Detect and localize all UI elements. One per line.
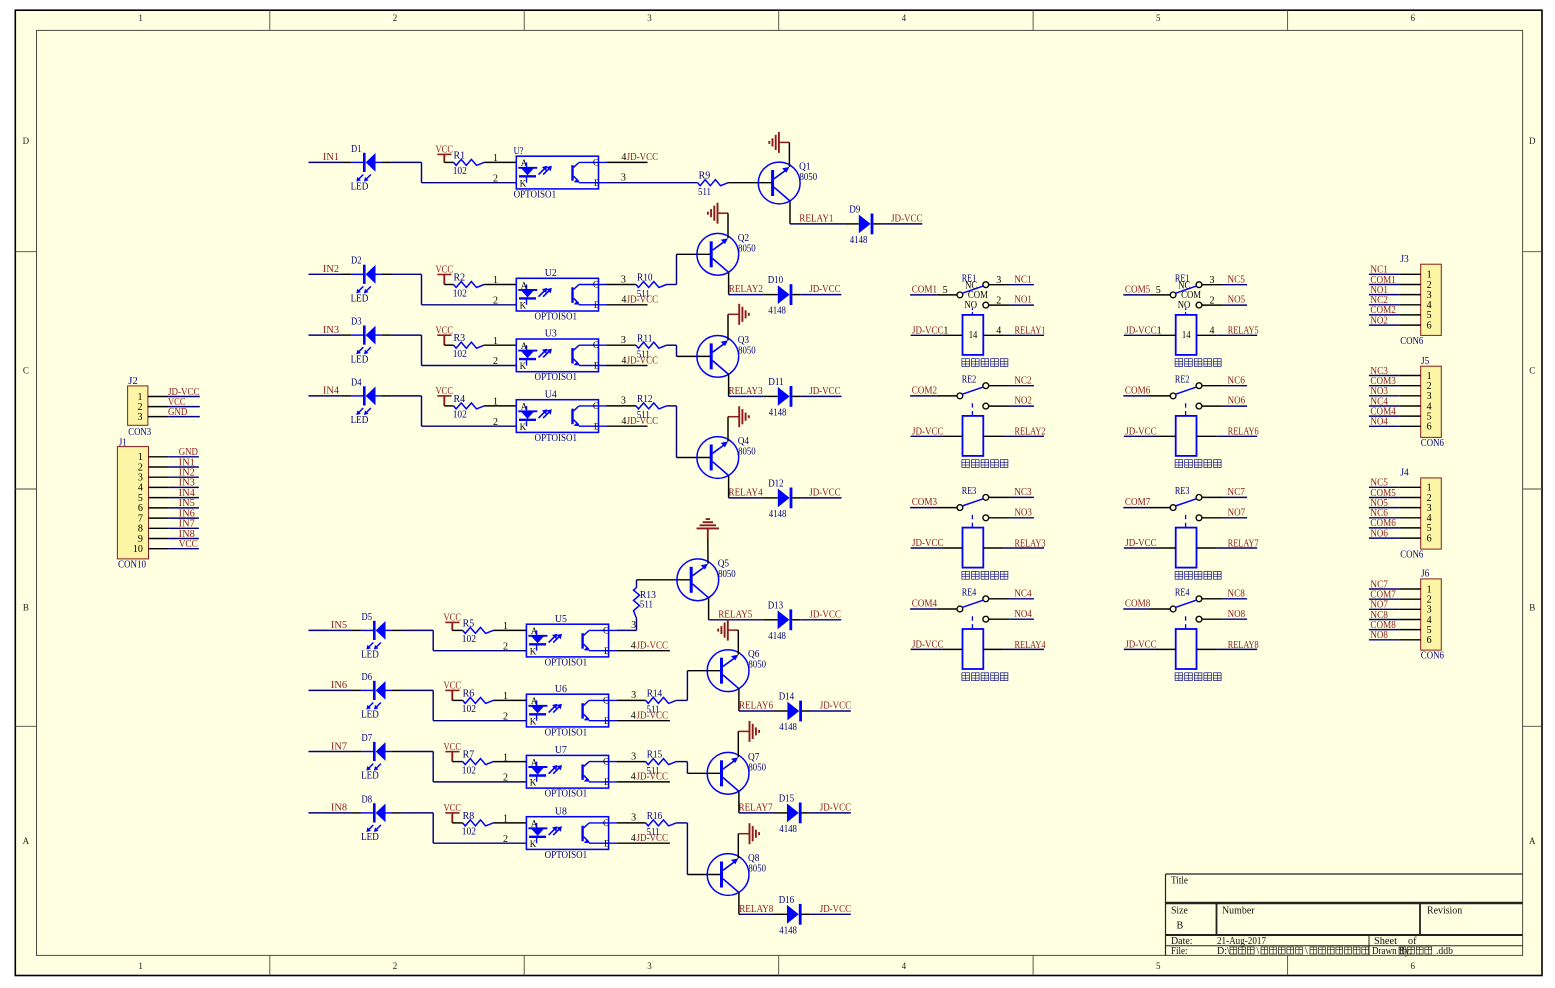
svg-text:RELAY7: RELAY7 [739, 803, 773, 814]
svg-text:4: 4 [631, 772, 636, 783]
wire Q1 collector to RELAY1 net [789, 201, 791, 224]
svg-text:U2: U2 [545, 268, 557, 279]
switch arm of RE3 [1175, 499, 1196, 506]
U5 internal LED [536, 630, 538, 635]
svg-text:C: C [603, 625, 609, 635]
value label of RE4 (Chinese) [1175, 673, 1221, 681]
svg-text:102: 102 [462, 634, 476, 645]
svg-text:JD-VCC: JD-VCC [912, 538, 944, 549]
diode D9 4148 [859, 215, 871, 234]
svg-text:1: 1 [503, 752, 508, 763]
svg-text:Q5: Q5 [718, 558, 729, 569]
ground above Q6 [728, 629, 739, 631]
wire NO6 [1202, 405, 1222, 407]
svg-text:102: 102 [453, 288, 467, 299]
U2 phototransistor [571, 287, 573, 303]
svg-text:RELAY6: RELAY6 [1228, 427, 1259, 438]
svg-text:B: B [1529, 603, 1535, 613]
svg-text:RELAY4: RELAY4 [729, 488, 763, 499]
switch arm of RE4 [1175, 600, 1196, 607]
opto-isolator U8 body [526, 817, 608, 850]
svg-text:RELAY2: RELAY2 [1015, 427, 1046, 438]
wire opto U2 pin 3 to R10 [607, 284, 637, 286]
svg-text:511: 511 [637, 410, 650, 421]
wire IN1 input [309, 161, 342, 163]
wire J4 pin 4 [1369, 517, 1399, 519]
contact NO of RE1 [1196, 302, 1202, 308]
ground above Q4 [728, 416, 739, 418]
opto-isolator U7 body [526, 755, 608, 788]
contact COM of RE1 [1170, 292, 1176, 298]
U4 phototransistor [571, 409, 573, 425]
svg-text:JD-VCC: JD-VCC [1125, 538, 1157, 549]
svg-text:1: 1 [503, 691, 508, 702]
svg-text:3: 3 [138, 412, 143, 423]
wire NC7 [1202, 496, 1222, 498]
svg-text:D:\: D:\ [1217, 946, 1230, 957]
svg-text:K: K [530, 839, 537, 849]
svg-text:6: 6 [1411, 961, 1416, 971]
svg-text:1: 1 [503, 621, 508, 632]
svg-text:NC1: NC1 [1014, 274, 1031, 285]
svg-text:Q4: Q4 [738, 436, 749, 447]
switch arm of RE1 [962, 286, 983, 293]
svg-text:R15: R15 [647, 750, 663, 761]
svg-text:.ddb: .ddb [1436, 946, 1453, 957]
diode D13 4148 [778, 610, 790, 629]
svg-text:3: 3 [621, 274, 626, 285]
svg-text:6: 6 [1427, 533, 1432, 544]
svg-text:10: 10 [133, 544, 143, 555]
wire NO3 [989, 517, 1009, 519]
pin 5 of J5 [1399, 415, 1421, 417]
wire Q3 emitter to ground [727, 314, 729, 340]
svg-text:8050: 8050 [738, 243, 756, 254]
svg-text:NO: NO [965, 300, 978, 311]
pin 4 of J3 [1399, 304, 1421, 306]
svg-text:IN1: IN1 [323, 152, 339, 163]
wire R4 to opto pin 1 [484, 405, 516, 407]
svg-text:D2: D2 [351, 256, 362, 267]
dotted link NO to coil of RE4 [971, 616, 973, 629]
switch arm of RE4 [962, 600, 983, 607]
svg-text:102: 102 [462, 704, 476, 715]
wire Q1 emitter to ground [788, 142, 790, 167]
opto-isolator U2 body [516, 278, 598, 311]
ground above Q3 [728, 313, 739, 315]
value label of RE3 (Chinese) [962, 571, 1008, 579]
wire J5 pin 1 [1369, 375, 1399, 377]
wire coil of RE2 to RELAY6 [1197, 435, 1217, 437]
relay coil RE2 [1176, 416, 1197, 456]
wire JD-VCC to coil of RE1 [911, 334, 943, 336]
pin 4 stub of U7 to JD-VCC [617, 781, 670, 783]
contact NC of RE2 [1196, 383, 1202, 389]
wire JD-VCC to coil of RE4 [911, 648, 943, 650]
pin 5 of J6 [1399, 629, 1421, 631]
svg-text:U7: U7 [555, 745, 567, 756]
svg-text:1: 1 [943, 325, 948, 336]
wire NC1 [989, 284, 1009, 286]
contact COM of RE2 [957, 393, 963, 399]
wire J1 pin 6 [168, 507, 199, 509]
svg-text:GND: GND [168, 407, 187, 418]
diode D1 LED [363, 153, 366, 172]
svg-text:2: 2 [503, 641, 508, 652]
svg-text:2: 2 [503, 711, 508, 722]
wire R10 to Q2 base [667, 284, 677, 286]
svg-text:4148: 4148 [850, 235, 868, 246]
wire coil of RE3 to RELAY7 [1197, 547, 1217, 549]
svg-text:A: A [531, 626, 538, 636]
wire from D1 to opto pin 2 [392, 161, 422, 163]
wire IN8 input [309, 812, 352, 814]
power VCC channel 2 [437, 274, 451, 276]
svg-text:D7: D7 [362, 733, 373, 744]
wire J6 pin 3 [1369, 608, 1399, 610]
transistor Q8 8050 [707, 854, 749, 896]
wire opto U7 pin 3 to R15 [617, 761, 646, 763]
svg-text:\: \ [1305, 946, 1308, 957]
pin 4 of J4 [1399, 517, 1421, 519]
U3 light arrows [539, 350, 546, 357]
svg-text:K: K [530, 716, 537, 726]
svg-text:C: C [593, 157, 599, 167]
svg-text:U6: U6 [555, 684, 567, 695]
svg-text:C: C [593, 279, 599, 289]
U4 light arrows [539, 411, 546, 418]
dotted link NO to coil of RE2 [971, 403, 973, 416]
svg-text:R8: R8 [463, 811, 475, 822]
svg-text:2: 2 [493, 296, 498, 307]
svg-text:A: A [521, 158, 528, 168]
wire Q2 collector to RELAY2 net [728, 272, 730, 294]
power VCC channel 6 [445, 689, 459, 691]
svg-text:4: 4 [631, 711, 636, 722]
wire coil of RE3 to RELAY3 [983, 547, 1003, 549]
svg-text:COM3: COM3 [912, 497, 937, 508]
svg-text:RE2: RE2 [962, 374, 977, 385]
svg-text:LED: LED [351, 182, 369, 193]
svg-text:NO8: NO8 [1370, 630, 1388, 641]
svg-text:6: 6 [1427, 320, 1432, 331]
diode D11 4148 [778, 387, 790, 406]
svg-text:3: 3 [621, 335, 626, 346]
wire J4 pin 2 [1369, 497, 1399, 499]
wire coil of RE1 to RELAY1 [983, 334, 1003, 336]
svg-text:102: 102 [462, 765, 476, 776]
svg-text:CON6: CON6 [1421, 651, 1444, 662]
resistor R5 102 [452, 629, 462, 631]
value label of RE1 (Chinese) [962, 359, 1008, 367]
svg-text:Q6: Q6 [748, 649, 759, 660]
wire from D8 to opto pin 2 [402, 812, 433, 814]
svg-text:J5: J5 [1421, 356, 1429, 367]
svg-text:OPTOISO1: OPTOISO1 [545, 727, 588, 738]
svg-text:14: 14 [1182, 330, 1191, 341]
svg-text:6: 6 [1427, 422, 1432, 433]
wire J1 pin 2 [168, 466, 199, 468]
pin 1 of J3 [1399, 273, 1421, 275]
svg-text:OPTOISO1: OPTOISO1 [545, 657, 588, 668]
svg-text:D16: D16 [779, 895, 795, 906]
svg-text:D11: D11 [768, 377, 784, 388]
svg-text:R6: R6 [463, 688, 475, 699]
contact NC of RE1 [1196, 282, 1202, 288]
pin 2 of J6 [1399, 598, 1421, 600]
wire NC4 [989, 598, 1009, 600]
pin 6 of J3 [1399, 324, 1421, 326]
svg-text:COM7: COM7 [1125, 497, 1150, 508]
svg-text:VCC: VCC [444, 613, 462, 624]
wire opto U8 pin 3 to R16 [617, 822, 646, 824]
wire JD-VCC to coil of RE3 [911, 547, 943, 549]
transistor Q6 8050 [707, 650, 749, 692]
svg-text:K: K [520, 178, 527, 188]
svg-text:Q7: Q7 [748, 752, 759, 763]
wire NC6 [1202, 385, 1222, 387]
ground (earth) above Q5 [706, 518, 710, 520]
wire J1 pin 9 [168, 538, 199, 540]
svg-text:JD-VCC: JD-VCC [627, 152, 659, 163]
wire J4 pin 6 [1369, 537, 1399, 539]
svg-text:JD-VCC: JD-VCC [912, 325, 944, 336]
svg-text:CON10: CON10 [118, 560, 146, 571]
svg-text:J2: J2 [128, 376, 138, 387]
svg-text:JD-VCC: JD-VCC [912, 426, 944, 437]
power VCC channel 7 [445, 751, 459, 753]
svg-text:VCC: VCC [436, 325, 454, 336]
svg-text:A: A [531, 819, 538, 829]
svg-text:R5: R5 [463, 618, 475, 629]
pin 2 of J5 [1399, 385, 1421, 387]
wire Q7 emitter to ground [737, 731, 739, 757]
svg-text:NO6: NO6 [1370, 528, 1388, 539]
svg-text:NC7: NC7 [1227, 487, 1245, 498]
svg-text:8050: 8050 [738, 447, 756, 458]
switch arm of RE2 [962, 387, 983, 394]
U7 light arrows [549, 767, 556, 774]
wire from D7 to opto pin 2 [402, 751, 433, 753]
wire R16 to Q8 base [676, 822, 687, 824]
svg-text:4148: 4148 [769, 407, 787, 418]
wire opto U4 pin 3 to R12 [607, 405, 637, 407]
U2 light arrows [539, 290, 546, 297]
svg-text:Q1: Q1 [799, 162, 810, 173]
svg-text:1: 1 [493, 153, 498, 164]
pin 5 of J1 [149, 497, 169, 499]
svg-text:LED: LED [361, 832, 379, 843]
wire JD-VCC to coil of RE3 [1124, 547, 1156, 549]
svg-text:RELAY8: RELAY8 [1228, 640, 1259, 651]
wire COM5 [1123, 294, 1149, 296]
U8 light arrows [549, 828, 556, 835]
svg-text:U8: U8 [555, 806, 567, 817]
svg-text:K: K [530, 778, 537, 788]
wire J4 pin 1 [1369, 486, 1399, 488]
wire R12 to Q4 base [667, 405, 677, 407]
svg-text:D: D [1529, 136, 1536, 146]
svg-text:E: E [594, 421, 600, 431]
wire J5 pin 2 [1369, 385, 1399, 387]
svg-text:U5: U5 [555, 614, 567, 625]
svg-text:JD-VCC: JD-VCC [1125, 639, 1157, 650]
opto-isolator U5 body [526, 624, 608, 657]
svg-text:JD-VCC: JD-VCC [820, 803, 852, 814]
svg-text:E: E [604, 716, 610, 726]
wire NO5 [1202, 304, 1222, 306]
svg-text:A: A [531, 757, 538, 767]
wire NO1 [989, 304, 1009, 306]
resistor R14 511 [646, 697, 677, 703]
svg-text:1: 1 [493, 397, 498, 408]
contact NC of RE1 [983, 282, 989, 288]
contact NO of RE2 [1196, 403, 1202, 409]
wire JD-VCC to coil of RE4 [1124, 648, 1156, 650]
pin 8 of J1 [149, 527, 169, 529]
svg-text:2: 2 [493, 356, 498, 367]
svg-text:RE4: RE4 [1175, 587, 1190, 598]
resistor R10 511 [636, 282, 667, 288]
contact NO of RE4 [1196, 616, 1202, 622]
svg-text:5: 5 [1156, 13, 1161, 23]
resistor R9 511 [698, 180, 729, 186]
wire Q3 collector to RELAY3 net [728, 374, 730, 396]
wire coil of RE1 to RELAY5 [1197, 334, 1217, 336]
svg-text:LED: LED [351, 294, 369, 305]
wire COM6 [1123, 395, 1149, 397]
wire J3 pin 2 [1369, 284, 1399, 286]
connector J2 body [128, 386, 148, 425]
svg-text:4148: 4148 [768, 306, 786, 317]
svg-text:511: 511 [640, 600, 653, 611]
contact COM of RE2 [1170, 393, 1176, 399]
U3 internal LED [526, 345, 528, 350]
svg-text:JD-VCC: JD-VCC [809, 386, 841, 397]
svg-text:R1: R1 [454, 150, 466, 161]
wire R15 to Q7 base [676, 761, 687, 763]
wire Q7 collector to RELAY7 net [738, 791, 740, 813]
svg-text:C: C [603, 695, 609, 705]
wire D10 to JD-VCC [792, 294, 800, 296]
contact NO of RE4 [983, 616, 989, 622]
contact NC of RE3 [1196, 495, 1202, 501]
wire opto U6 pin 3 to R14 [617, 699, 646, 701]
pin 3 of J3 [1399, 294, 1421, 296]
pin 4 stub of U2 to JD-VCC [607, 304, 648, 306]
svg-text:C: C [1529, 365, 1535, 375]
svg-text:511: 511 [647, 766, 660, 777]
svg-text:B: B [1177, 921, 1184, 932]
svg-text:OPTOISO1: OPTOISO1 [535, 372, 578, 383]
wire coil of RE2 to RELAY2 [983, 435, 1003, 437]
resistor R13 511 (vertical) [634, 588, 640, 619]
svg-text:511: 511 [647, 705, 660, 716]
svg-text:JD-VCC: JD-VCC [809, 609, 841, 620]
wire COM1 [910, 294, 936, 296]
value label of RE2 (Chinese) [1175, 460, 1221, 468]
contact NO of RE3 [1196, 515, 1202, 521]
wire IN3 input [309, 334, 342, 336]
svg-text:OPTOISO1: OPTOISO1 [514, 189, 557, 200]
resistor R8 102 [452, 822, 462, 824]
wire J3 pin 3 [1369, 294, 1399, 296]
svg-text:K: K [520, 361, 527, 371]
svg-text:CON3: CON3 [128, 427, 151, 438]
svg-text:D3: D3 [351, 317, 362, 328]
wire from D4 to opto pin 2 [392, 395, 422, 397]
svg-text:3: 3 [621, 396, 626, 407]
svg-text:RELAY8: RELAY8 [739, 904, 773, 915]
svg-text:LED: LED [361, 650, 379, 661]
pin 4 of J6 [1399, 619, 1421, 621]
diode D3 LED [363, 326, 366, 345]
svg-text:NO6: NO6 [1228, 396, 1246, 407]
svg-text:JD-VCC: JD-VCC [1125, 426, 1157, 437]
svg-text:1: 1 [493, 336, 498, 347]
relay coil RE1 [963, 315, 984, 355]
diode D7 LED [373, 742, 376, 761]
pin 4 stub of U6 to JD-VCC [617, 720, 670, 722]
svg-text:RELAY5: RELAY5 [1228, 326, 1259, 337]
svg-text:LED: LED [351, 354, 369, 365]
U7 internal LED [536, 762, 538, 767]
wire J2 pin 1 [168, 396, 200, 398]
svg-text:OPTOISO1: OPTOISO1 [545, 789, 588, 800]
connector J6 body [1421, 579, 1442, 650]
value label of RE1 (Chinese) [1175, 359, 1221, 367]
svg-text:RELAY3: RELAY3 [729, 386, 763, 397]
diode D10 4148 [778, 285, 790, 304]
relay coil RE3 [1176, 528, 1197, 568]
wire J5 pin 6 [1369, 425, 1399, 427]
contact NO of RE1 [983, 302, 989, 308]
wire IN7 input [309, 751, 352, 753]
pin 2 of J1 [149, 466, 169, 468]
svg-text:102: 102 [453, 410, 467, 421]
dotted link NO to coil of RE1 [971, 308, 973, 315]
svg-text:U3: U3 [545, 329, 557, 340]
dotted link NO to coil of RE4 [1185, 616, 1187, 629]
connector J3 body [1421, 264, 1442, 335]
svg-text:IN3: IN3 [323, 325, 339, 336]
svg-text:D5: D5 [362, 612, 373, 623]
wire NC5 [1202, 284, 1222, 286]
wire J1 pin 3 [168, 476, 199, 478]
svg-text:NO3: NO3 [1014, 507, 1032, 518]
contact COM of RE4 [1170, 606, 1176, 612]
resistor R12 511 [636, 403, 667, 409]
svg-text:LED: LED [361, 771, 379, 782]
contact NC of RE4 [983, 596, 989, 602]
svg-text:14: 14 [969, 330, 978, 341]
pin 4 stub of U8 to JD-VCC [617, 842, 670, 844]
svg-text:102: 102 [462, 827, 476, 838]
svg-text:OPTOISO1: OPTOISO1 [545, 850, 588, 861]
svg-text:3: 3 [647, 13, 652, 23]
U4 internal LED [526, 406, 528, 411]
svg-text:JD-VCC: JD-VCC [1125, 325, 1157, 336]
svg-text:A: A [23, 836, 30, 846]
contact COM of RE4 [957, 606, 963, 612]
wire R6 to opto pin 1 [493, 699, 526, 701]
diode D14 4148 [787, 702, 799, 721]
svg-text:511: 511 [637, 350, 650, 361]
wire Q8 emitter to ground [737, 834, 739, 859]
pin 1 of J4 [1399, 486, 1421, 488]
resistor R6 102 [452, 699, 462, 701]
U8 phototransistor [581, 826, 583, 842]
